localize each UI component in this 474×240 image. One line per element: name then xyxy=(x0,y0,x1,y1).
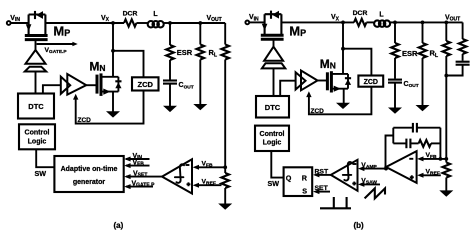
wire MN source to ground (a) xyxy=(112,92,114,112)
resistor divider R1 (a) xyxy=(221,45,229,60)
wire MP drain to rail (b) xyxy=(281,21,354,23)
transistor MP (b) xyxy=(261,11,284,40)
wire ZCD input tap (b) xyxy=(343,49,371,76)
wire COUT to ground (a) xyxy=(169,84,171,107)
node VIN terminal (a) xyxy=(7,21,11,25)
node RL tap (b) xyxy=(421,21,425,25)
wire gate stub (a) xyxy=(35,41,37,51)
op-amp comparator U3 (b) xyxy=(331,160,358,191)
wire VSAW (b) xyxy=(363,183,380,185)
svg-text:SET: SET xyxy=(315,185,329,192)
wire comparator output VSET (a) xyxy=(126,176,162,178)
wire divider top (b) xyxy=(445,22,447,41)
wire gate stub (b) xyxy=(273,41,275,48)
wire VIN to MP source (b) xyxy=(249,21,264,23)
svg-text:L: L xyxy=(153,11,158,18)
wire DTC to gate driver (b) xyxy=(280,81,295,96)
transistor MP (a) xyxy=(25,11,48,40)
wire CFF to divider (b) xyxy=(446,65,462,76)
wire VFB input (b) xyxy=(422,158,446,160)
node L output (a) xyxy=(168,21,172,25)
svg-text:VOUT: VOUT xyxy=(445,14,460,22)
ground MN (b) xyxy=(336,103,350,109)
wire compensation left edge (b) xyxy=(392,128,394,144)
node junction ZCD tap (a) xyxy=(111,49,115,53)
svg-text:ZCD: ZCD xyxy=(137,80,153,89)
box Control Logic (b) xyxy=(255,126,289,151)
compensation network C1 (b) xyxy=(393,123,440,133)
wire MP drain to rail (a) xyxy=(45,22,124,24)
wire ZCD output to driver (b) xyxy=(309,87,372,115)
inductor L (a) xyxy=(148,11,164,27)
svg-text:L: L xyxy=(379,11,384,18)
node feedforward join (b) xyxy=(444,74,448,78)
node Vx (b) xyxy=(341,21,345,25)
wire to VOUT (b) xyxy=(395,21,463,23)
svg-text:VGATE.P: VGATE.P xyxy=(132,181,156,189)
capacitor COUT (a) xyxy=(163,79,177,81)
wire ESR to COUT (b) xyxy=(394,58,396,79)
wire L to node (b) xyxy=(390,21,395,23)
svg-text:ZCD: ZCD xyxy=(78,117,92,124)
wire RFF to CFF (b) xyxy=(462,54,464,61)
arrow input VGATE.P (a) xyxy=(126,186,153,188)
wire VREF input (a) xyxy=(198,184,222,186)
wire RL to ground (a) xyxy=(199,60,201,105)
svg-text:DCR: DCR xyxy=(123,11,138,18)
node VFB (a) xyxy=(223,165,227,169)
svg-text:VFB: VFB xyxy=(133,160,145,168)
buffer stack U1 (a) xyxy=(26,50,46,64)
waveform sawtooth (b) xyxy=(365,188,385,198)
wire DCR to L (b) xyxy=(366,21,374,23)
resistor divider R2 (b) xyxy=(442,163,450,178)
gate driver buffers U2 (a) xyxy=(61,77,70,94)
wire driver to MN gate (a) xyxy=(86,84,96,86)
node VIN terminal (b) xyxy=(245,21,249,25)
svg-text:ZCD: ZCD xyxy=(364,79,378,86)
svg-text:generator: generator xyxy=(73,179,106,186)
box DTC (b) xyxy=(256,96,289,118)
svg-text:Q: Q xyxy=(286,173,292,182)
ground COUT (a) xyxy=(163,106,177,112)
wire stack to DTC (a) xyxy=(35,72,37,94)
capacitor COUT (b) xyxy=(388,79,402,81)
wire feedforward branch (b) xyxy=(462,22,464,39)
node VFB (b) xyxy=(444,157,448,161)
svg-text:R: R xyxy=(302,173,308,182)
svg-text:Adaptive on-time: Adaptive on-time xyxy=(61,166,118,173)
resistor DCR (a) xyxy=(124,19,136,26)
node VAMP (b) xyxy=(384,167,388,171)
wire VREF input (b) xyxy=(422,174,441,176)
svg-text:SW: SW xyxy=(35,169,47,178)
wire ESR branch (b) xyxy=(394,22,396,43)
wire ESR branch (a) xyxy=(169,23,171,45)
wire VFB input (a) xyxy=(198,166,225,168)
svg-text:VIN: VIN xyxy=(249,14,259,22)
ground divider (a) xyxy=(218,204,232,210)
resistor RL (b) xyxy=(419,43,427,58)
svg-text:Control: Control xyxy=(25,130,50,137)
wire stack to DTC (b) xyxy=(273,68,275,96)
wire divider to ground (a) xyxy=(224,188,226,204)
node junction ZCD tap (b) xyxy=(341,47,345,51)
wire feedback divider (a) xyxy=(224,23,226,45)
node VOUT (b) xyxy=(444,21,448,25)
wire ZCD input tap (a) xyxy=(113,51,144,78)
box SR latch (b) xyxy=(284,167,313,196)
wire ESR to COUT (a) xyxy=(169,60,171,80)
box ZCD (b) xyxy=(358,76,383,87)
wire SET (b) xyxy=(319,191,331,193)
transistor MN (b) xyxy=(327,71,351,92)
svg-text:Logic: Logic xyxy=(28,138,47,145)
wire VIN to MP source (a) xyxy=(11,22,29,24)
node Vx (a) xyxy=(111,21,115,25)
wire MN source to ground (b) xyxy=(343,89,345,104)
svg-text:VIN: VIN xyxy=(10,15,20,23)
svg-text:(a): (a) xyxy=(114,221,124,230)
wire RL branch (a) xyxy=(199,23,201,45)
wire RL to ground (b) xyxy=(422,58,424,106)
svg-text:S: S xyxy=(302,186,307,195)
ground divider (b) xyxy=(439,190,453,196)
op-amp comparator U3 (a) xyxy=(162,159,192,193)
svg-text:DCR: DCR xyxy=(353,10,368,17)
node VOUT (a) xyxy=(198,21,202,25)
box ZCD (a) xyxy=(132,77,159,90)
waveform SET pulses (b) xyxy=(320,197,351,208)
wire ZCD output to driver (a) xyxy=(76,91,144,124)
svg-text:ESR: ESR xyxy=(402,49,418,58)
resistor ESR (a) xyxy=(166,45,174,60)
svg-text:DTC: DTC xyxy=(265,103,281,112)
inductor L (b) xyxy=(374,11,390,26)
wire Vx down to MN drain (b) xyxy=(342,22,344,74)
wire divider mid (a) xyxy=(224,60,226,174)
wire SW (a) xyxy=(36,149,54,167)
wire compensation to amp output (b) xyxy=(386,136,394,169)
buffer stack U1 (b) xyxy=(264,47,283,61)
ground MN (a) xyxy=(106,111,120,117)
wire Vx down to MN drain (a) xyxy=(112,23,114,77)
arrow input VIN (a) xyxy=(126,158,150,160)
wire error amp output to VAMP (b) xyxy=(385,167,387,169)
compensation network C2 R2 (b) xyxy=(393,139,440,149)
resistor divider R2 (a) xyxy=(221,173,229,188)
wire to VOUT (a) xyxy=(170,22,225,24)
svg-text:Logic: Logic xyxy=(263,140,282,147)
transistor MN (a) xyxy=(97,73,122,96)
svg-text:VOUT: VOUT xyxy=(207,15,222,23)
resistor divider R1 (b) xyxy=(442,41,450,56)
wire RL branch (b) xyxy=(422,22,424,43)
svg-text:VSET: VSET xyxy=(133,171,147,179)
wire SW (b) xyxy=(271,151,283,178)
resistor feedforward RFF (b) xyxy=(459,39,467,54)
resistor RL (a) xyxy=(197,45,205,60)
capacitor CFF (b) xyxy=(456,61,470,63)
svg-text:VX: VX xyxy=(331,14,340,22)
box DTC (a) xyxy=(18,94,54,119)
wire DTC to gate driver (a) xyxy=(43,85,61,93)
svg-text:Control: Control xyxy=(260,131,285,138)
arrow input VFB (a) xyxy=(126,165,150,167)
ground COUT (b) xyxy=(388,108,402,114)
svg-text:DTC: DTC xyxy=(28,102,44,111)
op-amp error amplifier U4 (b) xyxy=(386,151,417,183)
svg-text:(b): (b) xyxy=(354,221,365,230)
box Control Logic (a) xyxy=(19,124,55,149)
wire compensation right edge (b) xyxy=(439,128,441,159)
wire divider to ground (b) xyxy=(445,178,447,191)
box adaptive on-time generator (a) xyxy=(54,156,123,192)
svg-text:ESR: ESR xyxy=(177,48,193,57)
arrow VGATE.P tap (a) xyxy=(37,43,74,45)
node L output (b) xyxy=(393,21,397,25)
resistor DCR (b) xyxy=(354,19,366,26)
svg-text:VX: VX xyxy=(101,15,110,23)
ground RL (a) xyxy=(193,104,207,110)
svg-text:RST: RST xyxy=(315,169,329,176)
wire RST (b) xyxy=(319,174,331,176)
svg-text:SW: SW xyxy=(268,179,280,188)
wire DCR to L (a) xyxy=(136,22,147,24)
wire VAMP (b) xyxy=(363,168,386,170)
ground RL (b) xyxy=(416,105,430,111)
node compensation to VFB (b) xyxy=(439,157,443,161)
resistor ESR (b) xyxy=(391,43,399,58)
gate driver buffers U2 (b) xyxy=(296,72,306,89)
wire COUT to ground (b) xyxy=(394,83,396,108)
wire divider mid (b) xyxy=(445,56,447,163)
svg-text:ZCD: ZCD xyxy=(311,108,325,115)
wire L to node (a) xyxy=(163,22,170,24)
wire driver to MN gate (b) xyxy=(318,80,327,82)
